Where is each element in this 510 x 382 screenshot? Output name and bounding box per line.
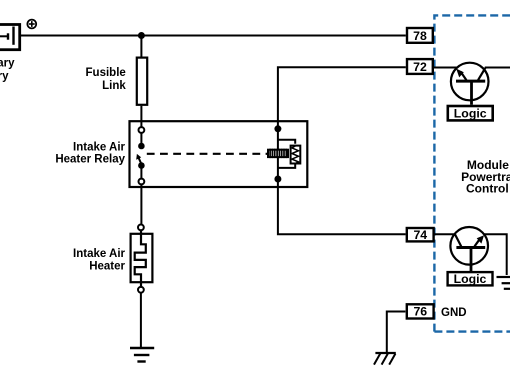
label Module: Powertrain Control	[461, 158, 510, 196]
svg-text:Logic: Logic	[454, 272, 487, 286]
svg-text:Intake Air: Intake Air	[73, 142, 126, 154]
earth ground (clipped at right)	[497, 277, 510, 289]
relay coil suppression resistor	[291, 146, 301, 164]
wire transistor Q1 collector to right edge	[485, 67, 510, 69]
svg-text:72: 72	[413, 60, 427, 74]
wire relay switch to heater	[140, 184, 142, 224]
wire pin 76 to chassis ground	[387, 312, 406, 353]
relay coil upper dot	[274, 125, 281, 132]
svg-text:GND: GND	[441, 307, 467, 319]
relay box outline	[130, 121, 308, 187]
dashed mechanical link switch to coil	[147, 153, 267, 155]
wire junction to fusible link	[140, 36, 142, 59]
label Intake Air Heater	[73, 248, 126, 273]
pin 78	[407, 28, 433, 43]
svg-text:Heater Relay: Heater Relay	[55, 153, 125, 165]
svg-text:Intake Air: Intake Air	[73, 248, 126, 260]
svg-text:Heater: Heater	[89, 261, 125, 273]
svg-text:Battery: Battery	[0, 71, 9, 83]
wire terminal to contact	[140, 133, 142, 144]
wire pin72 to relay coil (down the right side of relay)	[278, 67, 406, 151]
wire contact to bottom terminal	[140, 166, 142, 179]
wire transistor Q2 emitter to ground at right	[484, 234, 507, 275]
junction node at fusible link tap	[138, 32, 145, 39]
wire fusible link to relay switch	[140, 106, 142, 128]
battery B1 (auxiliary battery, clipped at left)	[0, 25, 20, 50]
PCM boundary (dashed module box)	[434, 15, 510, 331]
pin 72	[407, 59, 433, 74]
label Fusible Link	[86, 67, 127, 92]
chassis ground	[374, 353, 396, 365]
relay switch lower contact dot	[138, 162, 145, 169]
PCM boundary bottom edge	[434, 330, 510, 332]
svg-text:Auxiliary: Auxiliary	[0, 58, 15, 70]
relay switch bottom terminal	[139, 179, 145, 185]
relay switch movable arm with arrow	[136, 154, 141, 165]
svg-text:Link: Link	[102, 80, 126, 92]
label Intake Air Heater Relay	[55, 142, 125, 166]
wire relay coil to pin 74	[278, 158, 406, 234]
pin 76	[407, 304, 434, 318]
wire pin 72 to transistor Q1	[434, 67, 457, 69]
relay coil (solenoid, hatched)	[268, 149, 288, 158]
parallel resistor stub (bottom)	[278, 164, 295, 168]
relay switch top terminal	[139, 127, 145, 133]
relay switch upper contact dot	[138, 143, 145, 150]
heater top terminal	[138, 225, 144, 231]
svg-text:Logic: Logic	[454, 107, 487, 121]
label Auxiliary Battery (clipped)	[0, 58, 15, 83]
earth ground under heater	[130, 348, 154, 362]
relay coil lower dot	[274, 176, 281, 183]
logic box (Q2)	[448, 272, 493, 286]
heater bottom terminal	[138, 287, 144, 293]
svg-text:Control: Control	[466, 182, 509, 196]
wire battery to pin 78	[19, 35, 406, 37]
logic box (Q1)	[448, 106, 493, 121]
svg-text:74: 74	[413, 228, 427, 242]
fusible link F1	[137, 58, 147, 105]
svg-text:76: 76	[413, 305, 427, 319]
svg-text:Fusible: Fusible	[86, 67, 126, 79]
svg-text:78: 78	[413, 29, 427, 43]
parallel resistor stub (top)	[278, 140, 295, 144]
battery positive terminal marker	[27, 20, 36, 29]
wire heater to ground	[140, 293, 142, 348]
transistor Q2	[450, 227, 488, 271]
pin 74	[407, 228, 434, 242]
wire pin 74 to transistor Q2	[435, 233, 456, 235]
intake air heater element	[131, 231, 153, 287]
transistor Q1	[451, 63, 489, 105]
